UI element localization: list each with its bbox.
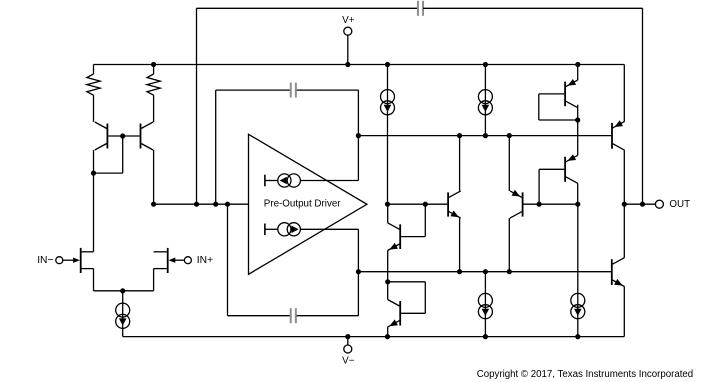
wire top base line [358, 135, 611, 137]
wire Q7 emitter [577, 120, 579, 155]
label copyright [477, 369, 693, 380]
current source I1 (input tail) [116, 303, 130, 328]
current source I5 [478, 90, 492, 115]
current source I3 (driver bottom) [265, 223, 359, 236]
node bottom base line junctions [457, 269, 512, 274]
wire bottom miller loop left [228, 204, 290, 316]
transistor Q5 [448, 191, 461, 218]
wire Q7 collector [577, 183, 579, 204]
transistor Q3 (diode-connected) [388, 223, 401, 251]
IN+ terminal [184, 255, 213, 266]
wire Q10 emitter to V- rail [623, 287, 625, 337]
svg-text:V−: V− [342, 355, 355, 366]
current source I2 (driver top) [265, 174, 359, 187]
wire Q8 emitter to rail [577, 65, 579, 81]
wire bottom miller loop right [297, 272, 359, 316]
wire node A to driver input [154, 203, 249, 205]
wire Q6 base line [524, 203, 578, 205]
wire Q9 emitter to V+ rail [623, 65, 625, 122]
svg-text:Copyright © 2017, Texas Instru: Copyright © 2017, Texas Instruments Inco… [477, 369, 693, 380]
transistor M2 (IN+ input) [154, 248, 185, 273]
node Q3-Q4 junction [385, 279, 390, 284]
wire Q7 collector to V- [577, 204, 579, 336]
wire Q9 collector to OUT [623, 150, 625, 204]
transistor Q8 (diode-connected) [565, 79, 578, 108]
wire V+ terminal to rail [347, 35, 349, 65]
node tail junction [120, 288, 125, 293]
wire V+ to mirror node [387, 65, 389, 205]
transistor M1 (IN- input) [63, 248, 94, 273]
V- terminal [342, 337, 355, 367]
transistor Q6 [510, 190, 523, 218]
capacitor C2 (top miller) [291, 83, 296, 98]
node V- rail junctions [345, 334, 580, 339]
capacitor C3 (bottom miller) [291, 308, 296, 323]
resistor R2 [147, 65, 160, 123]
svg-text:Pre-Output Driver: Pre-Output Driver [264, 198, 342, 209]
wire Q10 collector to OUT [623, 204, 625, 258]
op-amp U1 (pre-output driver) [249, 134, 367, 274]
wire Q4 base loop [388, 282, 426, 314]
transistor Q4 (diode-connected) [388, 300, 401, 328]
svg-text:OUT: OUT [669, 199, 690, 210]
wire Q5 collector to top line [459, 136, 461, 191]
node V+ rail junctions [151, 62, 580, 67]
OUT terminal [655, 199, 690, 210]
transistor Q9 (output high side) [612, 120, 625, 150]
node Q6 base junctions [537, 202, 581, 207]
node Q8 collector junction [575, 117, 580, 122]
wire I3 to bottom base node [357, 229, 359, 271]
wire Q3 collector [387, 204, 389, 223]
transistor Q1 [95, 122, 108, 150]
node top base tap [356, 133, 361, 138]
V+ terminal [342, 15, 355, 35]
wire Q6 emitter from top line [508, 136, 510, 191]
node A junctions [151, 202, 230, 207]
wire Q2 emitter down to node A [153, 150, 155, 204]
current source I6 [478, 293, 492, 318]
node loop-emitter junction [91, 171, 96, 176]
wire Q1-Q2 base rail [108, 135, 139, 137]
wire OUT [624, 203, 655, 205]
svg-text:IN−: IN− [37, 255, 53, 266]
resistor R1 [87, 65, 100, 123]
wire bottom base line to V- [484, 272, 486, 337]
wire V+ rail [94, 64, 625, 66]
wire tail to V- rail [122, 291, 124, 337]
wire V+ to top base line [484, 65, 486, 136]
wire top miller loop right [297, 90, 359, 136]
wire bottom base line [358, 271, 611, 273]
wire Q3 emitter down [387, 251, 389, 282]
transistor Q2 [141, 122, 154, 150]
node bottom base tap [356, 269, 361, 274]
wire Q5 emitter to bottom line [459, 218, 461, 272]
svg-text:V+: V+ [342, 15, 355, 26]
wire mirror node line [388, 203, 448, 205]
wire top miller loop left [216, 90, 290, 204]
IN- terminal [37, 255, 63, 266]
node mirror line junction [423, 202, 428, 207]
wire top feedback to OUT [423, 8, 642, 204]
wire V- rail [123, 336, 625, 338]
wire tail [94, 290, 154, 292]
wire Q3 base loop [401, 204, 425, 236]
wire Q6 collector to bottom line [508, 218, 510, 272]
wire I2 to top base node [357, 136, 359, 181]
wire Q4 collector [387, 282, 389, 300]
wire Q8 collector [577, 105, 579, 120]
wire Q4 emitter to V- [387, 327, 389, 337]
wire top feedback from node A [197, 8, 418, 204]
label Pre-Output Driver [264, 198, 342, 209]
current source I7 [571, 293, 585, 318]
transistor Q10 (output low side) [612, 258, 625, 287]
transistor Q7 [565, 154, 578, 183]
wire Q8 base loop [539, 94, 578, 120]
capacitor C1 (outer feedforward, top) [418, 1, 423, 16]
wire base-to-emitter loop [94, 136, 123, 173]
node top base line junctions [457, 133, 512, 138]
svg-text:IN+: IN+ [197, 255, 213, 266]
wire M2 source down [153, 269, 155, 291]
wire Q1 emitter down [93, 150, 95, 252]
node mirror top junction [385, 202, 390, 207]
wire M1 source down [93, 269, 95, 291]
wire Q7 base riser [539, 169, 564, 204]
node OUT junctions [622, 202, 645, 207]
current source I4 [381, 90, 395, 115]
node Q1-Q2 base junction [120, 133, 125, 138]
